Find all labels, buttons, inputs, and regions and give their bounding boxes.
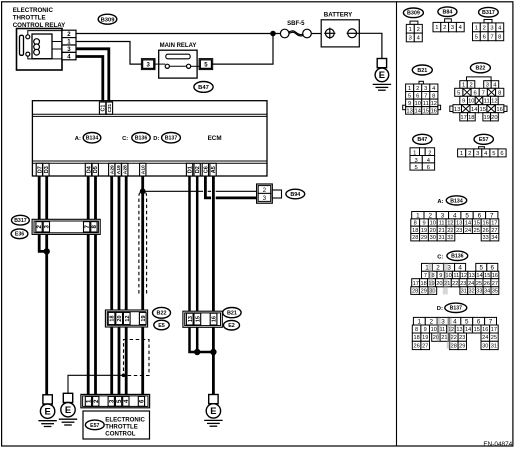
svg-text:A28: A28 [123,165,129,174]
svg-text:1: 1 [409,27,412,33]
svg-text:THROTTLE: THROTTLE [13,15,46,22]
svg-text:19: 19 [141,315,147,321]
svg-text:17: 17 [413,281,419,287]
svg-text:14: 14 [414,109,421,115]
wire ECM D7 to B317/E36 pin2 then junction [39,176,47,251]
junction node D1/D2 [194,349,213,355]
svg-text:A10: A10 [141,165,147,174]
svg-text:1: 1 [475,25,478,31]
B317/E36 pin 2 [36,222,43,232]
svg-text:13: 13 [456,327,462,333]
svg-text:B22: B22 [157,311,167,317]
svg-text:27: 27 [422,344,428,350]
svg-text:22: 22 [452,281,458,287]
svg-text:5: 5 [465,319,469,326]
svg-text:20: 20 [436,281,442,287]
connector B22/E5 bar [105,310,147,327]
connector label B309 [98,14,117,24]
connector label E5 [154,320,169,330]
main relay pin 5 [191,59,213,70]
ECM pin C1 [99,102,106,114]
svg-text:15: 15 [195,316,201,322]
svg-text:10: 10 [414,101,420,107]
B22/E5 pin 19 [139,312,146,324]
ECM connector table A B134 [411,196,499,241]
ECM connector table C B136 [411,251,499,295]
svg-text:C:: C: [122,136,128,142]
svg-text:24: 24 [482,335,488,341]
ECM pin D5 [92,163,99,176]
svg-text:E36: E36 [15,232,24,238]
svg-text:2: 2 [417,27,420,33]
svg-text:16: 16 [431,109,437,115]
connector label B47 [194,82,213,93]
ECM pin D1 [186,163,193,176]
relay coil loops [34,39,40,55]
svg-text:31: 31 [491,344,497,350]
svg-text:3: 3 [486,83,489,89]
svg-text:5: 5 [480,265,484,272]
svg-text:13: 13 [454,107,460,113]
relay coil box [32,34,52,59]
svg-text:1: 1 [418,319,422,326]
svg-text:7: 7 [424,93,427,99]
svg-text:29: 29 [459,344,465,350]
svg-text:A:: A: [437,199,443,205]
svg-text:15: 15 [423,109,429,115]
wire fuse to battery [311,33,321,35]
svg-text:C1: C1 [101,105,107,112]
svg-text:5: 5 [492,151,495,157]
electronic throttle control label [105,416,145,437]
ground E throttle motor ground [204,395,222,427]
connector view B317 [473,7,504,40]
throttle connector pin 4 [123,396,130,406]
svg-text:14: 14 [471,107,478,113]
svg-text:E: E [379,69,385,80]
svg-text:19: 19 [483,115,489,121]
svg-text:20: 20 [117,315,123,321]
svg-text:SBF-5: SBF-5 [287,21,305,27]
svg-text:B136: B136 [451,254,464,260]
shield around throttle motor wires (dashed) [124,340,150,376]
electronic throttle control box [83,411,150,439]
relay pin 3 [62,45,76,53]
svg-text:11: 11 [453,273,459,279]
connector label E57 [85,420,104,430]
battery [321,20,359,47]
svg-text:D1: D1 [188,166,194,173]
svg-text:30: 30 [482,344,488,350]
main relay pin 3 [141,59,165,70]
B21/E2 pin 15 [194,313,201,325]
svg-text:2: 2 [443,25,446,31]
svg-text:3: 3 [44,224,51,228]
svg-text:6: 6 [491,265,495,272]
svg-text:B94: B94 [290,192,300,198]
connector label B22 [153,307,171,318]
svg-text:16: 16 [492,273,498,279]
wire ECM D2 to B21/E2 pin15 to junction [196,176,199,352]
connector B317/E36 bar [32,219,100,234]
B317/E36 pin 8 [91,222,98,232]
wire junction to main relay pin5 [212,34,274,65]
svg-text:9: 9 [439,273,442,279]
svg-text:3: 3 [490,25,493,31]
svg-text:6: 6 [427,165,430,171]
svg-text:A5: A5 [211,166,217,173]
svg-text:B134: B134 [86,136,99,142]
throttle connector pin 5 [115,396,122,406]
junction node A5 [210,349,216,355]
svg-text:15: 15 [484,273,490,279]
drawing number EN-04874 [483,441,512,448]
svg-text:6: 6 [473,90,476,96]
svg-text:13: 13 [469,273,475,279]
ECM pin A28 [122,163,129,176]
ECM pin A10 [140,163,147,176]
svg-text:7: 7 [84,224,91,228]
svg-text:33: 33 [476,289,482,295]
svg-text:6: 6 [477,319,481,326]
svg-text:E57: E57 [90,423,99,429]
wire ECM A10 through B22/E5 pin19 to throttle pin6 [141,176,144,397]
svg-text:B47: B47 [198,85,209,91]
svg-text:1: 1 [462,83,465,89]
svg-text:CONTROL: CONTROL [105,430,135,437]
connector view B84 [433,7,464,32]
svg-text:B84: B84 [442,10,452,16]
svg-text:15: 15 [479,107,485,113]
ground battery (E) [373,59,391,91]
svg-text:14: 14 [476,273,482,279]
svg-text:9: 9 [408,101,411,107]
svg-text:B309: B309 [407,11,420,17]
svg-text:8: 8 [498,90,501,96]
wire ECM A5 through B21/E2 pin16 to ground [211,176,216,395]
connector label E2 [224,320,240,330]
svg-text:B309: B309 [101,17,116,23]
relay pin 1 [62,38,76,46]
svg-text:D:: D: [437,306,443,312]
svg-text:11: 11 [484,99,490,105]
connector label B317 [12,215,30,225]
svg-text:C21: C21 [107,103,112,112]
svg-text:2: 2 [468,151,471,157]
svg-text:22: 22 [451,335,457,341]
svg-text:12: 12 [461,273,467,279]
connector view B22 [450,63,507,121]
svg-text:29: 29 [421,289,427,295]
junction node A10 shield [140,188,146,194]
svg-text:3: 3 [409,36,412,42]
svg-text:23: 23 [460,281,466,287]
throttle body connector strip [81,394,150,407]
svg-text:2: 2 [483,25,486,31]
svg-text:12: 12 [431,101,437,107]
wire ECM C6 to B94 pin3 (thick) [205,176,257,198]
svg-text:1: 1 [435,25,438,31]
svg-text:D4: D4 [86,165,92,173]
svg-text:23: 23 [456,228,462,234]
svg-text:5: 5 [408,93,411,99]
svg-text:E57: E57 [479,137,489,143]
ground E shield ground [59,393,77,425]
svg-text:B317: B317 [482,10,495,16]
electronic throttle control relay label [13,7,66,29]
connector view B21 [403,65,441,115]
svg-text:E2: E2 [228,323,235,329]
svg-text:4: 4 [458,265,462,272]
svg-text:11: 11 [423,101,429,107]
fuse SBF-5 label [287,21,305,27]
svg-text:D3: D3 [44,166,50,173]
svg-text:26: 26 [413,344,419,350]
svg-text:EN-04874: EN-04874 [483,441,512,448]
svg-text:29: 29 [421,235,427,241]
svg-text:12: 12 [125,315,131,321]
svg-text:4: 4 [453,319,457,326]
svg-text:13: 13 [406,109,412,115]
svg-text:1: 1 [460,151,463,157]
svg-text:34: 34 [491,235,497,241]
shield around A10 wire (dashed) [139,191,147,293]
wire ECM D5 through B317/E36 pin8 to throttle pin2 [94,176,97,397]
svg-text:10: 10 [468,99,474,105]
ECM pin C21 [106,102,112,114]
svg-text:3: 3 [451,25,454,31]
svg-text:6: 6 [483,34,486,40]
ECM pin D4 [85,163,92,176]
ECM pin A19 [115,163,122,176]
connector B94 [257,184,282,203]
svg-text:9: 9 [462,99,465,105]
svg-text:B136: B136 [135,136,148,142]
throttle connector pin 6 [138,396,145,406]
wire relay pin2 to SBF-5 / battery line [76,33,280,35]
svg-text:3: 3 [108,399,115,403]
svg-text:9: 9 [424,327,427,333]
wire ECM A29 through B22/E5 pin18 to throttle pin3 [110,176,113,397]
wire ECM A28 through B22/E5 pin12 to throttle pin4 [125,176,128,397]
ECM pin A5 [210,163,217,176]
svg-text:8: 8 [415,327,418,333]
relay K1 ELECTRONIC THROTTLE CONTROL RELAY body [17,29,63,71]
svg-text:6: 6 [500,151,503,157]
connector label E36 [11,229,28,239]
svg-text:E: E [44,406,50,417]
svg-text:6: 6 [416,93,419,99]
wire relay pin1 to main relay pin3 [76,42,143,65]
svg-text:31: 31 [461,289,467,295]
svg-text:25: 25 [476,281,482,287]
throttle connector pin 3 [108,396,115,406]
main relay label [160,43,197,49]
B317/E36 pin 7 [84,222,91,232]
svg-text:33: 33 [482,235,488,241]
svg-text:7: 7 [482,90,485,96]
connector label B21 [223,308,241,318]
svg-text:34: 34 [484,289,490,295]
ECM pin D2 [194,163,201,176]
relay internal wiring [28,31,62,59]
svg-text:16: 16 [496,107,502,113]
svg-text:18: 18 [468,115,474,121]
wire shield drain to ground [68,374,125,394]
svg-text:THROTTLE: THROTTLE [105,423,138,430]
ground E sensor ground 1 [38,395,56,427]
svg-text:31: 31 [438,235,444,241]
svg-text:16: 16 [482,327,488,333]
wire ECM A19 through B22/E5 pin20 to throttle pin5 [118,176,121,397]
svg-text:B47: B47 [417,137,427,143]
connector view B309 [403,8,423,42]
svg-text:25: 25 [474,228,480,234]
svg-text:B134: B134 [450,198,463,204]
svg-text:28: 28 [412,235,418,241]
svg-text:2: 2 [429,319,433,326]
svg-text:32: 32 [468,289,474,295]
svg-text:7: 7 [424,273,427,279]
svg-text:C6: C6 [203,166,209,173]
svg-text:D:: D: [153,136,159,142]
svg-text:8: 8 [432,93,435,99]
connector label B94 [286,189,305,199]
svg-text:18: 18 [420,281,426,287]
B21/E2 pin 16 [210,313,217,325]
battery label [324,12,353,19]
svg-text:27: 27 [492,281,498,287]
connector view E57 [458,134,507,157]
svg-text:15: 15 [474,327,480,333]
svg-text:28: 28 [451,344,457,350]
scan shading bands [428,219,453,349]
B22/E5 pin 12 [123,312,130,324]
junction node battery feed [270,31,276,37]
ECM pin D7 [36,163,43,176]
B21/E2 pin 13 [186,313,193,325]
main relay body B47 [159,50,197,78]
svg-text:5: 5 [457,90,460,96]
wire relay pin3 to ECM C21 (thick) [76,49,109,101]
svg-text:3: 3 [441,319,445,326]
svg-text:MAIN RELAY: MAIN RELAY [160,43,197,49]
svg-text:ELECTRONIC: ELECTRONIC [105,416,145,423]
svg-text:E: E [210,405,216,416]
ECM pin A29 [109,163,116,176]
svg-text:7: 7 [489,319,493,326]
svg-text:17: 17 [460,115,466,121]
fuse SBF-5 [280,29,311,38]
svg-text:30: 30 [430,235,436,241]
relay pin 4 [62,52,76,60]
svg-text:13: 13 [188,316,194,322]
svg-text:2: 2 [469,83,472,89]
svg-text:1: 1 [86,399,93,403]
svg-text:16: 16 [212,316,218,322]
svg-text:25: 25 [491,335,497,341]
svg-text:5: 5 [414,165,417,171]
connector view B47 [410,134,435,171]
svg-text:5: 5 [475,34,478,40]
wire ECM D1 to B21/E2 pin13 then junction [190,176,198,352]
ECM pin C6 [202,163,209,176]
relay pin 2 [62,30,76,38]
svg-text:E: E [65,404,71,415]
svg-text:A:: A: [75,136,81,142]
svg-text:28: 28 [412,289,418,295]
wire battery to ground [359,33,382,58]
svg-text:ELECTRONIC: ELECTRONIC [13,7,54,14]
throttle connector pin 1 [85,396,92,406]
relay contact terminal bottom [26,52,30,56]
svg-text:10: 10 [431,327,437,333]
svg-text:BATTERY: BATTERY [324,12,353,19]
svg-text:B21: B21 [417,68,427,74]
wire relay pin4 to ECM C1 (thick) [76,57,103,102]
wire A10 junction to B94 pin2 [145,190,257,192]
svg-text:12: 12 [491,99,497,105]
relay contact terminal top [26,35,30,39]
junction node D7/D3 [44,248,50,254]
svg-text:ECM: ECM [208,135,222,142]
relay contact bar [20,35,24,55]
B317/E36 pin 3 [43,222,50,232]
svg-text:8: 8 [91,224,98,228]
ECM pin D3 [43,163,50,176]
B22/E5 pin 20 [116,312,123,324]
svg-text:8: 8 [498,34,501,40]
ECM connector labels [75,133,222,143]
svg-text:23: 23 [459,335,465,341]
wire ECM D4 through B317/E36 pin7 to throttle pin1 [87,176,90,397]
svg-text:20: 20 [491,115,497,121]
connector B21/E2 bar [183,311,222,327]
svg-text:35: 35 [492,289,498,295]
svg-text:7: 7 [490,34,493,40]
svg-text:18: 18 [413,335,419,341]
svg-text:B137: B137 [450,306,463,312]
svg-text:17: 17 [491,327,497,333]
svg-text:B21: B21 [227,311,237,317]
svg-text:D5: D5 [93,166,99,173]
svg-text:D2: D2 [195,166,201,173]
ECM box [32,101,267,176]
svg-text:24: 24 [468,281,474,287]
svg-text:19: 19 [422,335,428,341]
B22/E5 pin 18 [108,312,115,324]
svg-text:B317: B317 [14,218,27,224]
svg-text:3: 3 [447,265,451,272]
svg-text:B22: B22 [475,66,485,72]
svg-text:C:: C: [437,255,443,261]
svg-text:18: 18 [110,315,116,321]
svg-text:21: 21 [441,335,447,341]
throttle connector pin 2 [93,396,100,406]
svg-text:14: 14 [465,327,471,333]
svg-text:24: 24 [465,228,471,234]
svg-text:E5: E5 [158,323,165,329]
wire ECM D3 to B317/E36 pin3 to ground [45,176,48,395]
svg-text:2: 2 [436,265,440,272]
svg-text:26: 26 [484,281,490,287]
svg-text:B137: B137 [165,136,178,142]
ECM connector table D B137 [412,303,498,350]
svg-text:3: 3 [476,151,479,157]
